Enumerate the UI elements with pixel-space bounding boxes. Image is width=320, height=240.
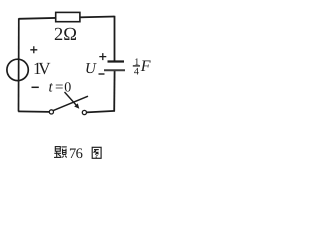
wire right upper vertical (114, 16, 116, 62)
wire right lower vertical (113, 70, 115, 111)
switch actuation arrow (65, 92, 80, 109)
label 1V (33, 59, 51, 78)
label 2Ω (54, 25, 77, 45)
wire bottom right segment (86, 111, 115, 113)
caption character 题 (54, 147, 67, 158)
polarity minus of source (32, 86, 39, 88)
label U (85, 61, 97, 77)
resistor 2ohm (56, 12, 80, 21)
voltage source VS (1V) (7, 59, 28, 80)
svg-text:6: 6 (76, 146, 83, 162)
capacitor C bottom plate (104, 69, 125, 71)
svg-text:V: V (38, 59, 51, 78)
svg-text:2Ω: 2Ω (54, 25, 77, 45)
polarity minus of capacitor (99, 73, 105, 75)
caption character 图 (92, 147, 101, 158)
label t=0 (49, 79, 72, 95)
svg-text:=: = (55, 79, 63, 95)
value label 1/4 F (133, 57, 151, 78)
svg-text:4: 4 (134, 66, 139, 77)
switch left terminal (49, 110, 53, 114)
svg-text:0: 0 (64, 80, 71, 95)
caption text 76 (69, 146, 83, 162)
switch S (closing at t=0) blade (53, 96, 88, 110)
wire bottom left segment (18, 110, 49, 113)
svg-text:F: F (140, 58, 151, 75)
polarity plus of source (30, 46, 37, 53)
wire top (19, 17, 115, 19)
capacitor C top plate (108, 60, 125, 62)
svg-text:t: t (49, 79, 54, 95)
switch right terminal (82, 110, 86, 114)
svg-text:U: U (85, 61, 97, 77)
wire left vertical (18, 18, 20, 111)
polarity plus of capacitor (99, 53, 106, 60)
